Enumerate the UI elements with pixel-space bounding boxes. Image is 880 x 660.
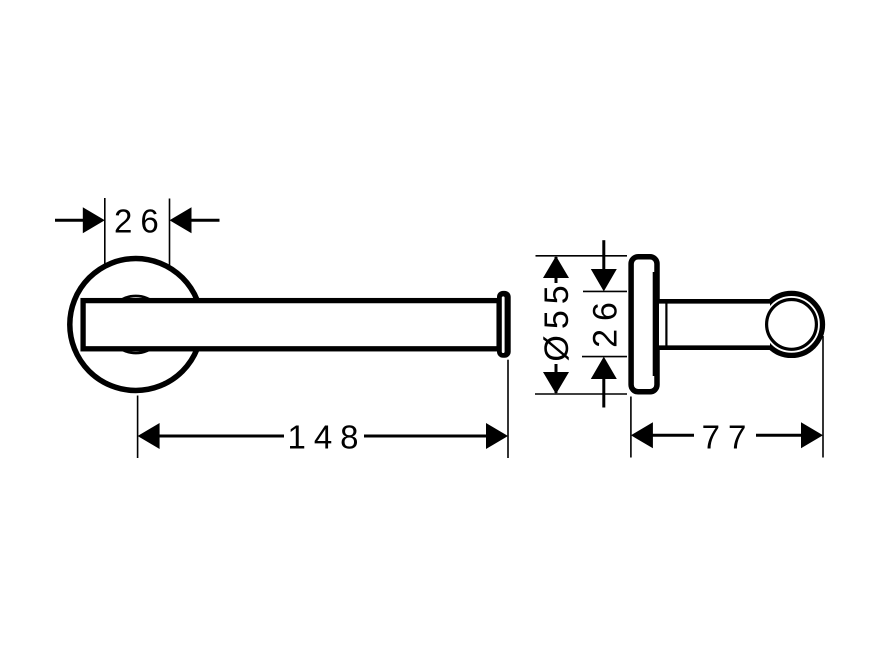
side view arm collar line (665, 300, 667, 348)
dim 26 side: upper tail line (602, 240, 605, 270)
dim D55: top arrowhead (543, 256, 569, 278)
dim 148: left arrowhead (138, 423, 160, 449)
side view arm top line (659, 299, 771, 304)
svg-text:26: 26 (114, 202, 167, 239)
dim 26 top: right tail line (191, 219, 220, 222)
dim D55: bottom arrowhead (543, 372, 569, 394)
side view ring inner circle (767, 300, 817, 350)
dim 77: left arrowhead (631, 422, 653, 448)
front view roll bar (83, 301, 499, 349)
front view end cap body (497, 291, 511, 358)
dim 148: line right segment (364, 435, 488, 438)
dim 26 top: left tail line (55, 219, 84, 222)
front view mounting post circle (bumps above/below bar) (107, 296, 164, 353)
side view plate inner edge line (653, 272, 655, 376)
dim 148: line left segment (158, 435, 284, 438)
svg-text:77: 77 (702, 419, 755, 456)
svg-text:148: 148 (287, 419, 366, 456)
dim 26 side: top tick (583, 290, 627, 292)
dim 26 top: left extension line (104, 198, 106, 264)
dim 26 top: left arrowhead (83, 207, 105, 233)
dim 77: right extension line (822, 336, 824, 458)
side view arm interior (masks ring arc) (659, 303, 770, 347)
dim 148: left extension line (137, 396, 139, 459)
svg-text:Ø55: Ø55 (538, 279, 576, 361)
dim D55: bottom extension line (535, 393, 627, 395)
dim 77: line left segment (652, 434, 694, 437)
side view ring outer circle (761, 293, 823, 355)
dim D55: line top segment (555, 257, 558, 283)
dim 26 side: upper arrowhead (591, 269, 617, 291)
svg-text:26: 26 (586, 294, 624, 348)
front view end cap slot (502, 296, 505, 353)
dim 26 top: right arrowhead (170, 207, 192, 233)
side view arm bottom line (659, 345, 771, 350)
side view wall plate profile (631, 257, 657, 392)
dim 26 side: bottom tick (582, 356, 627, 358)
dim 77: left extension line (630, 397, 632, 458)
dim D55: top extension line (536, 255, 628, 257)
dim 77: line right segment (756, 434, 802, 437)
dim 77: right arrowhead (801, 422, 823, 448)
front view wall plate circle (70, 259, 202, 391)
dim 148: right arrowhead (486, 423, 508, 449)
dim D55: line bottom segment (555, 364, 558, 393)
dim 26 side: lower tail line (602, 378, 605, 408)
dim 148: right extension line (507, 360, 509, 458)
dim 26 top: right extension line (169, 199, 171, 266)
dim 26 side: lower arrowhead (591, 357, 617, 379)
